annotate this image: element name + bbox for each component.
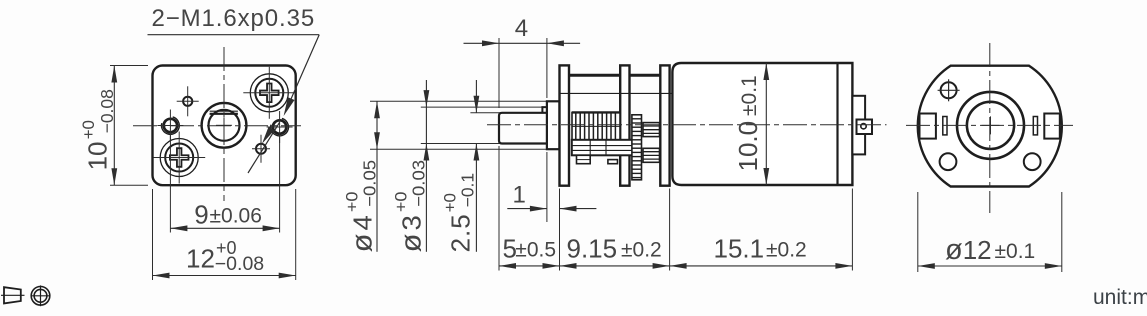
svg-text:ø12: ø12 xyxy=(945,234,992,266)
svg-text:4: 4 xyxy=(515,15,528,42)
svg-text:−0.03: −0.03 xyxy=(409,160,428,207)
svg-text:±0.06: ±0.06 xyxy=(210,204,262,227)
svg-text:15.1: 15.1 xyxy=(714,234,765,264)
svg-text:±0.2: ±0.2 xyxy=(766,239,807,262)
svg-text:−0.08: −0.08 xyxy=(97,89,117,133)
svg-text:1: 1 xyxy=(513,182,526,209)
svg-text:+0: +0 xyxy=(391,191,410,212)
svg-text:−0.08: −0.08 xyxy=(215,253,264,275)
svg-text:−0.1: −0.1 xyxy=(458,173,478,208)
svg-text:2−M1.6xp0.35: 2−M1.6xp0.35 xyxy=(152,5,316,32)
svg-text:±0.5: ±0.5 xyxy=(515,239,556,262)
svg-text:+0: +0 xyxy=(79,120,98,139)
svg-text:±0.1: ±0.1 xyxy=(995,240,1036,263)
svg-text:9: 9 xyxy=(194,200,208,230)
svg-text:ø4: ø4 xyxy=(346,212,378,252)
svg-text:10: 10 xyxy=(83,141,113,170)
svg-text:unit:mm: unit:mm xyxy=(1093,286,1147,309)
svg-text:9.15: 9.15 xyxy=(567,234,618,264)
svg-text:±0.2: ±0.2 xyxy=(621,239,662,262)
svg-text:±0.1: ±0.1 xyxy=(738,75,761,116)
svg-text:ø3: ø3 xyxy=(395,212,427,252)
svg-text:12: 12 xyxy=(186,244,215,274)
svg-text:+0: +0 xyxy=(342,191,361,212)
svg-text:−0.05: −0.05 xyxy=(360,160,379,207)
svg-text:2.5: 2.5 xyxy=(446,213,476,252)
svg-text:10.0: 10.0 xyxy=(733,121,763,172)
